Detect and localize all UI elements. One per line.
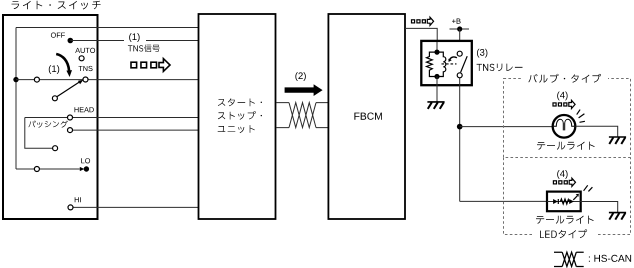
start-stop unit box bbox=[199, 14, 276, 219]
FBCM box bbox=[328, 14, 405, 219]
label passing bbox=[28, 121, 67, 128]
light switch box bbox=[3, 15, 98, 219]
label (3) bbox=[477, 49, 487, 58]
bulb filament bbox=[554, 119, 574, 130]
wire relay output vertical bbox=[459, 78, 461, 201]
ground (TNS relay) bbox=[427, 102, 444, 109]
relay switch blade bbox=[461, 56, 468, 72]
FBCM label bbox=[354, 113, 382, 120]
bulb circle bbox=[553, 115, 576, 138]
wire LED to ground bbox=[581, 202, 618, 213]
wire HI row bbox=[71, 206, 199, 208]
contact circle HI bbox=[68, 205, 73, 210]
label AUTO bbox=[75, 48, 95, 53]
flow arrow (2) bbox=[285, 84, 323, 96]
wire OFF row (right of (1)) bbox=[146, 40, 198, 42]
ground (LED tail light) bbox=[609, 213, 626, 220]
contact circle TNS bus bbox=[34, 77, 39, 82]
relay actuator arrow bbox=[448, 57, 457, 62]
wire LED row horizontal bbox=[460, 200, 547, 202]
switch blade pivot circle bbox=[52, 96, 57, 101]
LED type dashed box bbox=[504, 158, 631, 235]
start-stop unit label bbox=[218, 98, 262, 106]
contact circle AUTO bbox=[79, 56, 84, 61]
LED type label bbox=[534, 228, 597, 240]
signal-flow symbol (TNS signal) bbox=[131, 59, 170, 72]
relay switch contact top circle bbox=[457, 51, 462, 56]
label HEAD bbox=[75, 107, 94, 112]
label OFF bbox=[51, 33, 65, 38]
arrowhead LO bbox=[80, 167, 85, 171]
switch blade wire bbox=[57, 82, 80, 97]
wire relay coil feed bbox=[436, 42, 438, 52]
label TNS relay bbox=[477, 64, 523, 72]
wire left bus vertical bbox=[15, 28, 17, 170]
LED resistor bbox=[560, 199, 569, 204]
contact dot LO bbox=[84, 166, 89, 171]
label TNS bbox=[79, 66, 93, 71]
relay coil bbox=[437, 52, 446, 76]
wire +B to relay bbox=[459, 29, 461, 51]
wire bulb to ground bbox=[575, 126, 617, 137]
contact circle passing bbox=[68, 128, 73, 133]
contact circle TNS bbox=[83, 77, 88, 82]
legend HS-CAN symbol bbox=[554, 252, 584, 266]
bulb light rays bbox=[577, 110, 585, 123]
wire HEAD row bbox=[25, 117, 198, 119]
junction dot relay coil top bbox=[434, 50, 439, 55]
label (1) on OFF wire bbox=[129, 33, 139, 42]
LED light rays bbox=[584, 185, 593, 191]
junction dot tail light feed bbox=[457, 124, 463, 130]
label (1) switch bbox=[49, 65, 59, 74]
bulb type label bbox=[523, 71, 608, 84]
TNS relay box bbox=[421, 41, 472, 85]
relay switch contact bottom circle bbox=[457, 73, 462, 78]
wire inside LED unit bbox=[547, 201, 581, 203]
rotate arrow (1) bbox=[56, 54, 72, 77]
LED arrow contact bbox=[569, 199, 574, 204]
contact circle HEAD bbox=[68, 115, 73, 120]
label +B bbox=[452, 19, 461, 24]
label (4) LED bbox=[557, 170, 567, 179]
junction dot +B bbox=[457, 26, 462, 31]
junction dot relay coil bottom bbox=[434, 74, 439, 79]
bulb type dashed box bbox=[504, 79, 631, 158]
wire HEAD to passing link bbox=[25, 118, 53, 149]
relay actuator dashed link bbox=[442, 63, 457, 65]
wire FBCM to relay bbox=[405, 28, 437, 41]
junction dot TNS bus bbox=[13, 77, 18, 82]
signal-flow symbol (LED) bbox=[553, 178, 575, 186]
contact circle passing link bbox=[53, 146, 58, 151]
wire TNS row bbox=[16, 79, 198, 81]
label HI bbox=[75, 197, 81, 202]
signal-flow symbol (FBCM output) bbox=[412, 17, 434, 25]
HS-CAN twisted pair wire bbox=[276, 103, 328, 128]
wire OFF row (left of (1)) bbox=[70, 40, 124, 42]
wire relay coil to ground bbox=[436, 77, 438, 102]
ground (bulb tail light) bbox=[609, 137, 626, 144]
signal-flow symbol (bulb) bbox=[553, 100, 575, 108]
wire passing row bbox=[70, 129, 198, 131]
LED diode bbox=[553, 199, 558, 204]
light switch label bbox=[12, 1, 101, 10]
label LO bbox=[81, 158, 90, 163]
relay resistor bbox=[427, 52, 438, 76]
label tail light (bulb) bbox=[537, 142, 595, 150]
LED emission arrow bbox=[573, 194, 579, 200]
label (4) bulb bbox=[557, 92, 567, 101]
legend label HS-CAN bbox=[589, 255, 631, 262]
switch blade arrowhead bbox=[78, 80, 84, 85]
label TNS signal bbox=[128, 45, 160, 53]
label (2) bbox=[295, 72, 305, 81]
LED unit box bbox=[547, 192, 581, 212]
contact dot OFF bbox=[68, 38, 74, 44]
wire LO row bbox=[16, 168, 80, 170]
label tail light (LED) bbox=[536, 216, 594, 224]
contact circle LO row bbox=[34, 167, 39, 172]
+B feed bar bbox=[450, 28, 470, 30]
wire to bulb tail light bbox=[460, 126, 553, 128]
wire top bus row bbox=[16, 27, 198, 29]
